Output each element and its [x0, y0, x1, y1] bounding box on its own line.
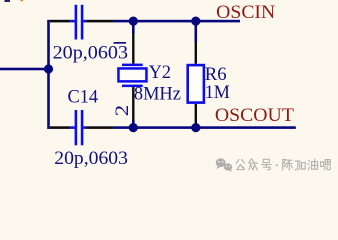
svg-text:C14: C14	[68, 88, 99, 108]
svg-text:OSCIN: OSCIN	[216, 2, 275, 23]
svg-text:20p,0603: 20p,0603	[53, 44, 128, 64]
svg-text:1M: 1M	[205, 83, 230, 103]
svg-text:20p,0603: 20p,0603	[54, 149, 128, 169]
svg-text:OSCOUT: OSCOUT	[215, 105, 294, 126]
svg-text:8MHz: 8MHz	[134, 85, 181, 105]
svg-text:2: 2	[111, 105, 133, 116]
svg-text:Y2: Y2	[149, 63, 171, 83]
